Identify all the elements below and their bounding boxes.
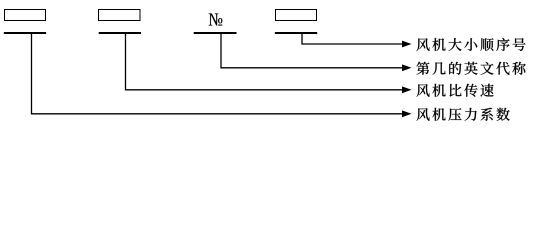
label "fan specific speed" [417,84,494,97]
box B1 (pressure-coefficient code position) [5,10,46,21]
wire W3 (No mark -> row 2) [221,34,403,68]
underline bar L4 [275,32,317,34]
arrowhead for W2 [402,86,412,93]
box B2 (specific-speed code position) [99,10,141,21]
wire W4 (size sequence -> row 1) [302,34,403,45]
label "fan pressure coefficient" [417,108,510,121]
box B4 (size sequence code position) [276,10,317,21]
underline bar L3 [194,32,237,34]
underline bar L1 [4,32,46,34]
arrowhead for W4 [402,41,412,48]
underline bar L2 [99,32,141,34]
wire W1 (pressure coeff -> row 4) [32,34,403,114]
arrowhead for W3 [402,64,412,71]
arrowhead for W1 [402,110,412,117]
wire W2 (specific speed -> row 3) [126,34,403,90]
label "English designation of number" [417,62,526,75]
label "fan size sequence number" [417,38,526,51]
No symbol (fan size number mark) [209,14,223,26]
